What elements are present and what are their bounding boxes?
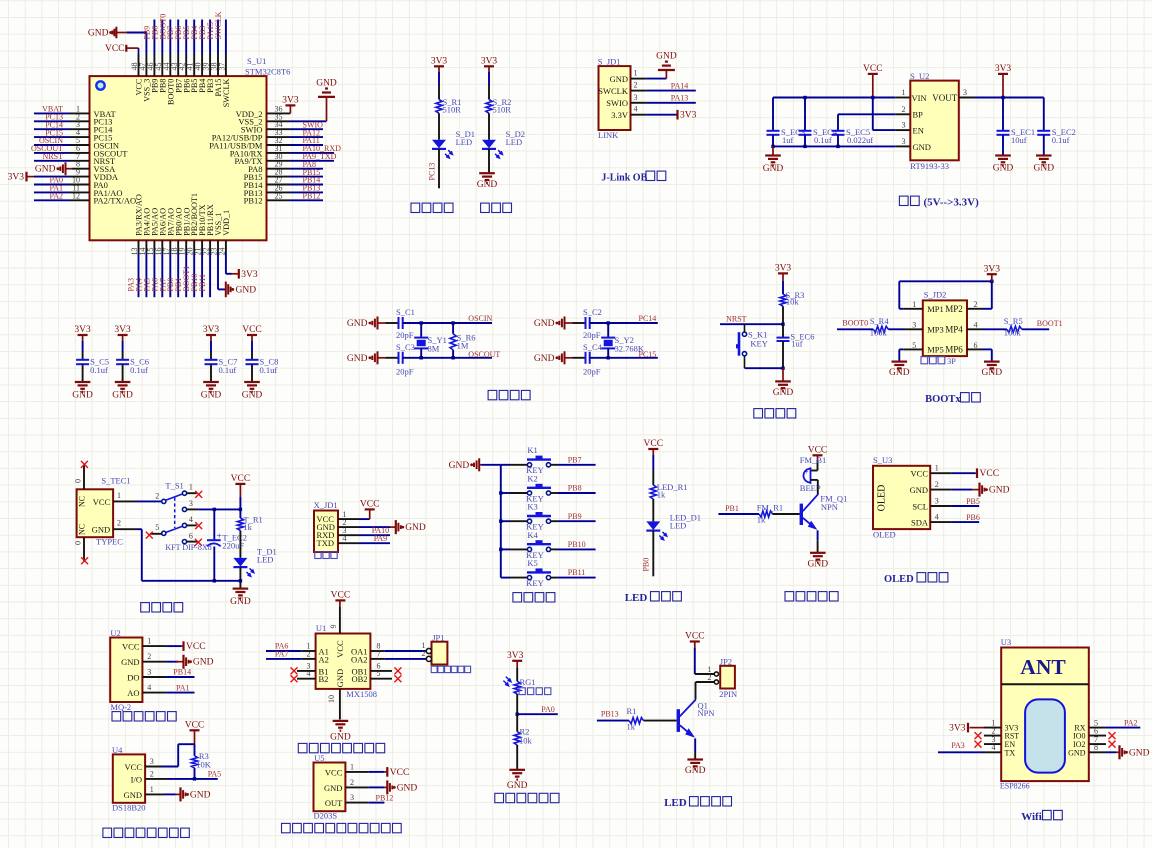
svg-text:OSCIN: OSCIN <box>468 314 492 323</box>
ground (S_EC1) <box>993 156 1014 174</box>
svg-text:2: 2 <box>117 519 121 528</box>
ground (lighting) <box>685 760 706 777</box>
title smoke detection module <box>112 712 176 721</box>
svg-text:NRST: NRST <box>43 152 64 161</box>
svg-text:GND: GND <box>316 78 337 88</box>
power VCC (U2 pin 1) <box>142 641 205 652</box>
capacitor S_EC2 0.1uf <box>1037 98 1076 156</box>
svg-text:MP1: MP1 <box>927 304 944 314</box>
resistor R1 1k <box>627 706 644 731</box>
svg-text:OLED: OLED <box>873 530 896 540</box>
svg-text:20pF: 20pF <box>396 366 414 376</box>
svg-text:VCC: VCC <box>331 590 351 600</box>
svg-text:GND: GND <box>124 790 142 800</box>
ground (S_C5) <box>72 382 93 401</box>
svg-text:DO: DO <box>127 672 139 682</box>
svg-text:4: 4 <box>147 683 151 692</box>
svg-text:LINK: LINK <box>598 130 619 140</box>
wire GND bus <box>113 529 240 581</box>
no-connect RST (U3 pin 2) <box>975 732 1002 739</box>
label jumper-cap 3P <box>921 357 956 366</box>
photoresistor RG1 <box>503 677 535 694</box>
wire VOUT bus <box>959 97 1044 99</box>
net OSCIN wire (U1 pin 5) <box>34 136 90 145</box>
power 3V3 (U1 pin 36) <box>267 96 299 114</box>
wire <box>782 306 784 324</box>
svg-text:PB13: PB13 <box>601 710 619 719</box>
net PB5 wire (U1 pin 41) <box>182 20 194 77</box>
svg-text:3V3: 3V3 <box>431 57 448 67</box>
junction <box>213 508 216 511</box>
capacitor S_C1 20pF <box>386 307 415 340</box>
svg-text:OB2: OB2 <box>351 674 367 684</box>
ground (crystal bottom) <box>347 351 386 364</box>
svg-text:GND: GND <box>335 669 345 687</box>
svg-text:OLED: OLED <box>877 485 888 512</box>
svg-text:SCL: SCL <box>912 501 928 511</box>
svg-text:VOUT: VOUT <box>932 93 957 103</box>
title WiFi module <box>1021 810 1062 822</box>
svg-text:GND: GND <box>236 286 257 296</box>
net PB11 wire <box>558 568 596 577</box>
svg-text:T_S1: T_S1 <box>165 480 183 490</box>
net PA8 wire (U1 pin 29) <box>267 160 324 169</box>
svg-text:A2: A2 <box>319 654 329 664</box>
svg-text:R1: R1 <box>627 706 637 716</box>
net PC14 wire <box>590 314 658 323</box>
resistor FM_R1 1k <box>757 502 783 524</box>
ground VSS_1 (U1 pin 23) <box>218 240 256 297</box>
net PC13 wire (U1 pin 2) <box>34 113 90 122</box>
net PB8 wire (U1 pin 45) <box>150 20 162 77</box>
capacitor S_EC4 0.1uf <box>799 98 838 147</box>
svg-text:PB5: PB5 <box>966 497 980 506</box>
resistor T_R1 1k <box>237 509 262 531</box>
svg-text:OA2: OA2 <box>351 654 368 664</box>
no-connect B2 (U1 pin 4) <box>291 675 316 682</box>
crystal S_Y2 32.768K <box>601 323 645 358</box>
svg-text:GND: GND <box>534 354 555 364</box>
svg-text:GND: GND <box>201 391 222 401</box>
svg-text:PB14: PB14 <box>173 668 191 677</box>
title OLED display <box>884 573 948 585</box>
ground (X_JD1 pin 2) <box>338 520 426 534</box>
ground VSSA (U1 pin 8) <box>35 162 90 175</box>
svg-text:PA2/TX/AO: PA2/TX/AO <box>94 196 137 206</box>
junction <box>499 548 502 551</box>
net PB9 wire (U1 pin 46) <box>142 20 154 77</box>
svg-text:GND: GND <box>1068 748 1086 757</box>
svg-text:GND: GND <box>121 657 139 667</box>
net PA15 wire (U1 pin 38) <box>206 20 218 77</box>
svg-text:LED: LED <box>670 521 687 531</box>
junction <box>803 96 806 99</box>
svg-text:0: 0 <box>74 479 83 483</box>
ground (pin 6) <box>967 349 1002 378</box>
svg-text:1: 1 <box>117 491 121 500</box>
svg-text:2: 2 <box>155 491 159 500</box>
ground (S_JD1 pin 1) <box>631 52 677 79</box>
IC U3 ESP8266 body <box>992 637 1099 790</box>
power 3V3 (S_JD1 pin 4) <box>631 110 697 121</box>
net PA10_RXD wire (U1 pin 31) <box>267 144 342 153</box>
wire <box>239 567 241 588</box>
key K2 KEY <box>501 473 558 503</box>
svg-text:20pF: 20pF <box>396 330 414 340</box>
net NRST wire <box>720 314 783 324</box>
wire <box>516 745 518 770</box>
svg-text:10: 10 <box>327 695 336 703</box>
svg-text:PB11: PB11 <box>198 274 207 292</box>
svg-text:K1: K1 <box>527 445 537 455</box>
switch T_S1 KFT DIP-8X8 <box>146 480 212 552</box>
svg-text:3V3: 3V3 <box>8 173 25 183</box>
svg-text:NC: NC <box>78 524 87 535</box>
svg-text:S_JD1: S_JD1 <box>598 56 621 66</box>
ground (S_C8) <box>242 382 263 401</box>
power 3V3 VDD_1 (U1 pin 24) <box>226 240 258 279</box>
power 3V3 (S_C5) <box>74 325 91 360</box>
power 3V3 (reset) <box>775 264 792 295</box>
ground (U1 pin 35) <box>267 78 337 121</box>
net PA6 wire (U1 pin 1) <box>266 642 316 651</box>
svg-text:1: 1 <box>147 637 151 646</box>
svg-text:NC: NC <box>78 496 87 507</box>
ground (keys) <box>449 458 501 471</box>
svg-text:GND: GND <box>449 461 470 471</box>
svg-text:VCC: VCC <box>185 721 205 731</box>
power VCC (U1 pin 48) <box>105 44 139 76</box>
wire VCC to U4 pin 3 <box>145 744 194 766</box>
net PA0 wire (U1 pin 10) <box>34 176 90 185</box>
svg-text:STM32C8T6: STM32C8T6 <box>245 67 290 77</box>
LED S_D2 <box>482 129 525 158</box>
wire BP net <box>838 113 910 115</box>
connector S_JD1 LINK body <box>598 56 638 139</box>
junction <box>836 145 839 148</box>
net PB5 wire (OLED pin 3) <box>930 497 980 506</box>
junction <box>771 145 774 148</box>
no-connect OB1 (U1 pin 6) <box>370 667 401 674</box>
wire JP2 pin2 to collector <box>696 682 715 700</box>
svg-text:GND: GND <box>656 52 677 62</box>
svg-text:SDA: SDA <box>911 518 929 528</box>
svg-text:S_R4: S_R4 <box>870 316 890 326</box>
wire switch to VCC node <box>187 508 241 510</box>
ground (S_C6) <box>112 382 133 401</box>
svg-text:OUT: OUT <box>325 798 343 808</box>
svg-text:PA2: PA2 <box>50 192 64 201</box>
power VCC (T circuit) <box>231 474 251 509</box>
title light collection circuit <box>495 793 559 802</box>
svg-text:LED: LED <box>664 797 687 809</box>
svg-text:GND: GND <box>982 368 1003 378</box>
svg-text:TXD: TXD <box>317 538 334 548</box>
svg-text:1: 1 <box>935 464 939 473</box>
IC S_U1 STM32C8T6 body <box>90 56 291 240</box>
svg-text:10uf: 10uf <box>1011 135 1027 145</box>
svg-text:GND: GND <box>347 354 368 364</box>
no-connect IO2 (U3 pin 7) <box>1089 741 1116 748</box>
svg-text:2: 2 <box>902 105 906 114</box>
svg-text:D203S: D203S <box>314 810 338 820</box>
svg-text:VCC: VCC <box>390 768 410 778</box>
pin 0 bottom (no connect) <box>74 537 88 564</box>
wire JP2 pin1 <box>695 673 715 675</box>
svg-text:+: + <box>217 531 222 541</box>
power VCC (X_JD1 pin 1) <box>338 500 379 519</box>
junction <box>193 777 196 780</box>
svg-text:GND: GND <box>910 485 928 495</box>
junction <box>213 579 216 582</box>
net PA7 wire (U1 pin 2) <box>266 650 316 659</box>
title power 5V to 3.3V <box>899 196 979 208</box>
capacitor S_C2 20pF <box>573 307 602 340</box>
svg-text:VIN: VIN <box>912 93 927 103</box>
svg-text:FM_B1: FM_B1 <box>800 455 826 465</box>
net PA0 wire <box>517 705 558 714</box>
svg-text:PA2: PA2 <box>1124 718 1138 727</box>
svg-text:1k: 1k <box>627 722 636 732</box>
svg-text:5: 5 <box>155 523 159 532</box>
net PB10 wire (U1 pin 21) <box>190 240 202 297</box>
power VCC (U1 pin 9) <box>329 590 350 633</box>
svg-text:2: 2 <box>422 649 426 658</box>
svg-text:GND: GND <box>112 391 133 401</box>
key K3 KEY <box>501 502 558 532</box>
title programmable-LED <box>411 203 453 212</box>
svg-text:Wifi: Wifi <box>1021 811 1042 823</box>
svg-text:GND: GND <box>35 165 56 175</box>
capacitor S_C6 0.1uf <box>116 356 149 382</box>
svg-text:GND: GND <box>330 732 351 742</box>
net OSCOUT wire (U1 pin 6) <box>31 144 90 153</box>
svg-text:1k: 1k <box>243 522 252 532</box>
IC S_U1 pin numbers <box>72 63 283 256</box>
svg-text:OSCOUT: OSCOUT <box>468 350 500 359</box>
net PB14 wire (U1 pin 27) <box>267 176 324 185</box>
svg-text:GND: GND <box>993 164 1014 174</box>
svg-text:S_C3: S_C3 <box>396 342 415 352</box>
power VCC (pull-up) <box>185 721 205 745</box>
svg-text:VCC: VCC <box>911 469 929 479</box>
svg-text:1: 1 <box>902 88 906 97</box>
svg-text:3V3: 3V3 <box>481 57 498 67</box>
wire <box>745 367 784 369</box>
svg-text:GND: GND <box>88 29 109 39</box>
net PA10 wire (X_JD1 pin 3) <box>338 526 390 535</box>
net PA3 wire (U3 pin 4) <box>938 741 1001 752</box>
svg-text:10k: 10k <box>786 297 800 307</box>
svg-text:2: 2 <box>350 778 354 787</box>
IC U4 DS18B20 body <box>112 745 154 813</box>
wire <box>239 531 241 558</box>
title BOOTx settings <box>925 393 980 405</box>
svg-text:GND: GND <box>610 74 628 84</box>
svg-text:20pF: 20pF <box>583 330 601 340</box>
wire <box>644 720 677 722</box>
ground (T_D1) <box>230 589 251 607</box>
pin 0 top (no connect) <box>74 461 88 489</box>
capacitor S_C7 0.1uf <box>205 356 238 382</box>
resistor S_R5 100k <box>967 316 1023 338</box>
power 3V3 (S_C6) <box>114 325 131 360</box>
svg-text:GND: GND <box>397 783 418 793</box>
svg-text:2: 2 <box>935 480 939 489</box>
ground (S_C7) <box>201 382 222 401</box>
svg-text:BOOT1: BOOT1 <box>1037 319 1063 328</box>
ground (reset) <box>773 368 794 398</box>
svg-text:S_C4: S_C4 <box>583 342 603 352</box>
svg-text:VCC: VCC <box>242 325 262 335</box>
svg-text:GND: GND <box>347 319 368 329</box>
resistor R3 10K <box>191 744 211 779</box>
svg-text:RG1: RG1 <box>520 677 536 687</box>
svg-text:PB12: PB12 <box>244 196 263 206</box>
IC U1 MX1508 body <box>307 623 381 699</box>
capacitor S_C5 0.1uf <box>76 356 109 382</box>
resistor S_R1 510R <box>436 97 462 115</box>
no-connect EN (U3 pin 3) <box>975 741 1002 748</box>
net PB14 wire (U2 pin 3) <box>142 668 194 677</box>
svg-text:TX: TX <box>1005 748 1016 757</box>
svg-text:PB9: PB9 <box>568 512 582 521</box>
svg-text:I/O: I/O <box>131 774 142 784</box>
svg-text:(5V-->3.3V): (5V-->3.3V) <box>924 197 980 209</box>
svg-text:VCC: VCC <box>186 642 206 652</box>
svg-text:GND: GND <box>324 783 342 793</box>
key S_K1 KEY <box>736 324 768 368</box>
power VCC (buzzer) <box>808 446 828 471</box>
svg-text:U4: U4 <box>112 745 123 755</box>
IC U2 MQ-2 body <box>110 628 151 712</box>
net NRST wire (U1 pin 7) <box>34 152 90 161</box>
svg-text:X_JD1: X_JD1 <box>314 500 338 510</box>
net PA6 wire (U1 pin 16) <box>150 240 162 297</box>
power 3V3 (S_C7) <box>203 325 220 360</box>
svg-text:3V3: 3V3 <box>775 264 792 274</box>
connector JP2 2PIN <box>708 656 738 699</box>
svg-text:VCC: VCC <box>125 762 143 772</box>
svg-text:6: 6 <box>189 531 193 540</box>
resistor LED_R1 1k <box>650 482 687 500</box>
svg-text:MP2: MP2 <box>945 304 963 314</box>
svg-text:3: 3 <box>935 497 939 506</box>
net BOOT0 wire (U1 pin 44) <box>158 14 170 76</box>
junction <box>516 713 519 716</box>
net OSCIN wire <box>403 314 493 323</box>
svg-text:GND: GND <box>230 597 251 607</box>
net PA2 wire (U1 pin 12) <box>34 192 90 201</box>
net PB8 wire <box>558 484 596 493</box>
junction <box>451 321 454 324</box>
svg-text:VCC: VCC <box>122 642 140 652</box>
net PB0 wire (U1 pin 18) <box>166 240 178 297</box>
net PA4 wire (U1 pin 14) <box>134 240 146 297</box>
svg-text:4: 4 <box>189 515 193 524</box>
net PB6 wire (OLED pin 4) <box>930 513 980 522</box>
svg-text:GND: GND <box>242 391 263 401</box>
svg-text:3: 3 <box>902 137 906 146</box>
title reset circuit <box>754 409 796 418</box>
svg-text:BOOTx: BOOTx <box>925 394 961 405</box>
resistor R2 10k <box>514 714 532 745</box>
svg-text:PA7: PA7 <box>275 650 289 659</box>
resistor S_R4 100k <box>870 316 923 338</box>
svg-text:3: 3 <box>150 757 154 766</box>
title crystal circuit <box>488 390 530 399</box>
net OSCOUT wire <box>403 350 501 359</box>
svg-text:3V3: 3V3 <box>114 325 131 335</box>
net PC13 wire <box>427 149 439 188</box>
no-connect OB2 (U1 pin 5) <box>370 675 401 682</box>
net PB10 wire <box>558 540 596 549</box>
svg-text:OLED: OLED <box>884 574 914 585</box>
ground (pin 5) <box>889 349 923 378</box>
power 3V3 (BOOT jumper) <box>984 264 1001 281</box>
title buzzer circuit <box>785 592 838 601</box>
junction <box>990 280 993 283</box>
net PC14 wire (U1 pin 3) <box>34 120 90 129</box>
svg-text:MP5: MP5 <box>927 345 944 355</box>
svg-text:0.022uf: 0.022uf <box>847 135 873 145</box>
svg-text:3: 3 <box>634 93 638 102</box>
svg-text:3V3: 3V3 <box>984 264 1001 274</box>
svg-text:VDD_1: VDD_1 <box>222 210 231 236</box>
net PC15 wire <box>590 350 658 359</box>
svg-text:LED: LED <box>625 592 648 604</box>
net PB0 wire <box>642 531 654 577</box>
svg-text:LED: LED <box>257 555 274 565</box>
junction <box>781 367 784 370</box>
title J-Link OB interface <box>601 171 665 183</box>
power VCC (LED_D1) <box>644 439 664 485</box>
net PA5 wire (U1 pin 15) <box>142 240 154 297</box>
svg-text:0.1uf: 0.1uf <box>1052 135 1070 145</box>
crystal S_Y1 8M <box>414 323 447 358</box>
net PB6 wire (U1 pin 42) <box>174 20 186 77</box>
svg-text:S_U2: S_U2 <box>910 71 929 81</box>
net PA7 wire (U1 pin 17) <box>158 240 170 297</box>
svg-text:U2: U2 <box>110 628 120 638</box>
power VCC (S_C8) <box>242 325 262 360</box>
title ambient temperature module <box>103 828 189 837</box>
wire GND bus <box>773 145 910 147</box>
svg-text:GND: GND <box>913 142 931 152</box>
key K4 KEY <box>501 530 558 560</box>
ground (light) <box>507 770 528 791</box>
svg-text:K4: K4 <box>527 530 538 540</box>
svg-text:U1: U1 <box>316 623 326 633</box>
ground (U4 pin 1) <box>145 787 211 801</box>
wire <box>438 113 440 139</box>
svg-text:0.1uf: 0.1uf <box>814 135 832 145</box>
wire OA1 (U1 pin 8) <box>370 650 426 652</box>
svg-text:MP4: MP4 <box>945 325 963 335</box>
junction <box>781 323 784 326</box>
svg-text:K2: K2 <box>527 473 537 483</box>
svg-text:GND: GND <box>193 658 214 668</box>
junction <box>871 96 874 99</box>
wire <box>773 513 800 515</box>
label download port <box>315 552 337 559</box>
svg-text:9: 9 <box>329 625 338 629</box>
svg-text:3V3: 3V3 <box>995 64 1012 74</box>
net PA2 wire (U3 pin 5) <box>1089 718 1141 727</box>
IC U5 D203S body <box>314 753 355 820</box>
ground (U3 pin 8) <box>1089 745 1150 759</box>
svg-text:EN: EN <box>913 126 924 136</box>
